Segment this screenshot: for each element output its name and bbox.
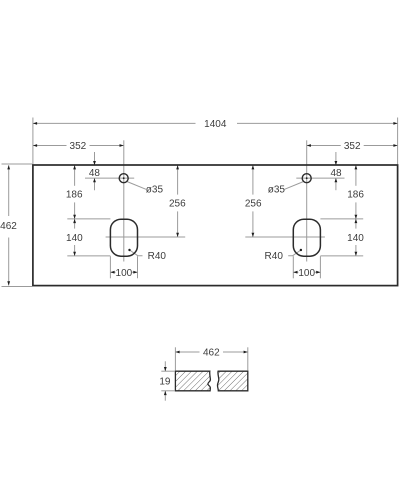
svg-text:ø35: ø35 bbox=[146, 184, 164, 195]
leader diameter 35 right bbox=[285, 182, 304, 190]
dimension line 256 right vertical bbox=[252, 165, 254, 237]
svg-text:352: 352 bbox=[344, 141, 361, 152]
dimension line 100 left bbox=[110, 271, 137, 273]
arrowheads 186 right bbox=[355, 165, 358, 169]
sink cutout left bbox=[110, 219, 137, 256]
dimension line 1404 bbox=[33, 122, 398, 124]
svg-text:256: 256 bbox=[169, 199, 186, 210]
extension line right sink top bbox=[320, 218, 363, 220]
svg-text:48: 48 bbox=[330, 168, 342, 179]
arrowheads 100 left bbox=[110, 271, 114, 274]
arrowheads 256 right bbox=[252, 165, 255, 169]
centerline left sink horizontal bbox=[106, 236, 186, 238]
svg-text:462: 462 bbox=[0, 221, 17, 232]
centerline right faucet horizontal bbox=[296, 177, 344, 179]
section 462 dimension line bbox=[175, 351, 247, 353]
dimension line 186 and 140 right vertical bbox=[355, 165, 357, 256]
svg-text:352: 352 bbox=[70, 141, 87, 152]
leader diameter 35 left bbox=[127, 182, 146, 190]
extension lines 100 right bbox=[292, 256, 294, 278]
svg-text:19: 19 bbox=[159, 377, 171, 388]
dimension line 352 right bbox=[307, 145, 398, 147]
dimension line 256 left vertical bbox=[177, 165, 179, 237]
leader dots R40 bbox=[128, 249, 130, 251]
svg-text:R40: R40 bbox=[265, 251, 284, 262]
arrowheads 462 left bbox=[7, 165, 10, 169]
arrowheads 48 left bbox=[93, 161, 96, 165]
svg-text:186: 186 bbox=[66, 190, 83, 201]
centerline right sink horizontal bbox=[245, 236, 325, 238]
faucet hole right bbox=[302, 174, 311, 183]
dimension line 186 and 140 left vertical bbox=[74, 165, 76, 256]
countertop outline rectangle bbox=[33, 165, 398, 286]
extension line top for 462 bbox=[2, 163, 33, 165]
arrowheads 140 right bbox=[355, 219, 358, 223]
extension line left sink bottom bbox=[67, 255, 110, 257]
extension line right for 1404 bbox=[397, 118, 399, 165]
extension line right sink bottom bbox=[320, 255, 363, 257]
arrowheads section 462 bbox=[175, 351, 179, 354]
extension line left sink top bbox=[67, 218, 110, 220]
svg-text:462: 462 bbox=[203, 348, 220, 359]
text gap backgrounds bbox=[196, 119, 238, 129]
arrowheads section 19 bbox=[164, 367, 167, 371]
extension line bottom for 462 bbox=[2, 286, 33, 288]
svg-text:140: 140 bbox=[66, 233, 83, 244]
arrowheads 186 left bbox=[73, 165, 76, 169]
faucet hole left bbox=[119, 174, 128, 183]
sink cutout right bbox=[293, 219, 320, 256]
leader R40 left bbox=[130, 250, 143, 256]
section left block hatched bbox=[175, 371, 210, 391]
section 19 extension lines bbox=[161, 370, 175, 372]
section right block hatched bbox=[217, 371, 247, 391]
centerline left faucet and sink vertical bbox=[123, 140, 125, 261]
svg-text:1404: 1404 bbox=[204, 119, 227, 130]
arrowheads 100 right bbox=[293, 271, 297, 274]
faucet hole center dots bbox=[123, 177, 125, 179]
svg-text:140: 140 bbox=[347, 233, 364, 244]
extension line left for 1404 bbox=[32, 118, 34, 165]
dimension 48 left tails bbox=[94, 152, 96, 165]
svg-text:256: 256 bbox=[245, 199, 262, 210]
centerline right faucet and sink vertical bbox=[306, 140, 308, 261]
leader R40 right bbox=[288, 250, 301, 256]
svg-text:100: 100 bbox=[298, 268, 315, 279]
svg-text:48: 48 bbox=[89, 168, 101, 179]
dimension line 352 left bbox=[33, 145, 124, 147]
arrowheads 1404 bbox=[33, 122, 37, 125]
arrowheads 352 right bbox=[307, 144, 311, 147]
section 462 extension lines bbox=[174, 347, 176, 370]
dimension line 100 right bbox=[293, 271, 320, 273]
extension lines 100 left bbox=[109, 256, 111, 278]
dimension line 462 left vertical bbox=[8, 165, 10, 285]
arrowheads 140 left bbox=[73, 219, 76, 223]
centerline left faucet horizontal bbox=[85, 177, 134, 179]
section 19 dimension tails bbox=[164, 361, 166, 371]
arrowheads 48 right bbox=[335, 161, 338, 165]
arrowheads 352 left bbox=[33, 144, 37, 147]
svg-text:100: 100 bbox=[116, 268, 133, 279]
dimension 48 right tails bbox=[335, 152, 337, 165]
arrowheads 256 left bbox=[176, 165, 179, 169]
svg-text:ø35: ø35 bbox=[268, 184, 286, 195]
svg-text:186: 186 bbox=[347, 190, 364, 201]
svg-text:R40: R40 bbox=[148, 251, 167, 262]
